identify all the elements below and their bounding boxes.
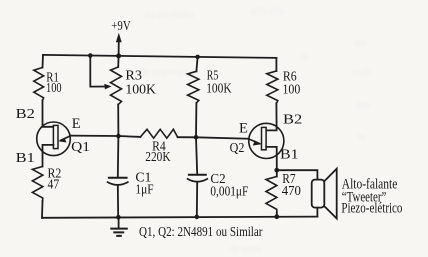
junction: +9V arrow / R3 top on rail	[116, 53, 121, 58]
ground	[118, 217, 120, 228]
wire R6 to Q2 B2	[266, 103, 276, 130]
svg-text:47: 47	[48, 177, 60, 192]
junction: wiper tap on +9V rail	[88, 53, 93, 58]
svg-text:100K: 100K	[125, 81, 156, 96]
junction: R5 top on rail	[195, 55, 200, 60]
wire R7 to bottom rail	[276, 212, 278, 216]
junction: R7 bottom on rail	[274, 214, 279, 219]
svg-text:B1: B1	[280, 148, 299, 163]
svg-text:onde: onde	[352, 67, 372, 78]
transistor Q1 (UJT) circle	[37, 122, 71, 156]
svg-text:E: E	[72, 116, 81, 132]
wire R1 to Q1 B2	[43, 101, 54, 127]
capacitor C1 top wire	[117, 136, 120, 178]
svg-text:B1: B1	[16, 151, 35, 166]
wire rail right corner to R6	[275, 58, 277, 71]
svg-text:de estes: de estes	[230, 244, 261, 255]
svg-text:de emprego: de emprego	[140, 67, 187, 78]
wire rail to R5	[196, 57, 197, 71]
resistor R7	[266, 177, 277, 213]
R3 wiper arrowhead	[104, 84, 111, 90]
capacitor C2 top wire	[196, 137, 197, 174]
svg-text:0,001μF: 0,001μF	[210, 183, 248, 198]
junction: ground / C1 on bottom rail	[116, 215, 121, 220]
junction: C2 bottom on rail	[195, 215, 200, 220]
svg-text:Q1, Q2: 2N4891 ou Similar: Q1, Q2: 2N4891 ou Similar	[139, 225, 263, 240]
transistor Q2 (UJT) circle	[249, 123, 284, 158]
capacitor C2 plates	[189, 174, 206, 176]
wire rail to R3 top	[117, 56, 119, 67]
svg-text:100: 100	[46, 80, 62, 95]
wire node to R7	[276, 170, 278, 176]
wire Q2 B1 lead down to node	[266, 147, 277, 170]
junction node: Q2 B1 / R7 / speaker	[274, 168, 279, 173]
junction node: Q2 emitter side / R5 / C2	[194, 135, 199, 140]
svg-text:100: 100	[283, 82, 301, 97]
resistor R2	[32, 167, 42, 202]
resistor R1	[34, 68, 44, 101]
resistor R4	[140, 129, 177, 138]
Q1 emitter arrowhead	[58, 138, 66, 143]
svg-text:E: E	[239, 120, 248, 136]
svg-text:oro: oro	[356, 100, 369, 111]
svg-text:Piezo-elétrico: Piezo-elétrico	[341, 201, 402, 217]
svg-text:to: to	[358, 132, 366, 143]
capacitor C1 bottom wire	[117, 185, 119, 217]
svg-text:Q2: Q2	[230, 141, 245, 156]
wire R2 to bottom rail corner	[41, 201, 44, 218]
svg-text:ow: ow	[355, 38, 368, 49]
resistor R6	[267, 71, 278, 103]
power arrow +9V head	[116, 33, 122, 42]
wire emitter line Q1 to Q2	[71, 136, 140, 137]
resistor R5	[188, 71, 199, 103]
wire R5 to emitter line	[195, 103, 197, 137]
wire top rail	[43, 55, 276, 58]
wire bottom rail	[42, 217, 317, 218]
wire Q1 B1 lead to R2	[43, 145, 54, 167]
speaker driver box	[312, 180, 325, 208]
capacitor C1 plates	[109, 177, 127, 179]
svg-text:aplicado: aplicado	[250, 6, 284, 17]
transistor Q2 emitter lead	[248, 139, 259, 144]
junction node: Q1 emitter / R3 / C1	[116, 134, 121, 139]
transistor Q1 emitter lead	[61, 136, 71, 141]
svg-text:+9V: +9V	[111, 19, 130, 34]
transistor Q1 base bar	[53, 125, 58, 148]
svg-text:os: os	[300, 52, 309, 63]
svg-text:no oscilador: no oscilador	[145, 10, 195, 21]
svg-text:B2: B2	[16, 107, 35, 122]
resistor R3 (rheostat)	[111, 67, 122, 105]
wire speaker bottom riser	[316, 208, 318, 217]
wire left column top (rail corner to R1)	[42, 55, 45, 68]
wire R3 wiper loop	[90, 56, 106, 87]
wire R4 to Q2 emitter	[178, 137, 249, 139]
svg-text:B2: B2	[283, 113, 302, 128]
wire +9V stub	[118, 38, 120, 56]
Q2 emitter arrowhead	[253, 140, 262, 145]
capacitor C2 bottom wire	[196, 182, 198, 217]
svg-text:1μF: 1μF	[135, 181, 153, 196]
speaker cone	[324, 169, 336, 219]
svg-text:Q1: Q1	[71, 140, 90, 155]
transistor Q2 base bar	[262, 127, 267, 149]
svg-text:100K: 100K	[206, 80, 232, 95]
faint bleedthrough smudges	[140, 6, 372, 255]
svg-text:220K: 220K	[145, 149, 171, 164]
wire node to speaker top	[277, 170, 318, 179]
svg-text:R3: R3	[125, 67, 142, 82]
svg-text:470: 470	[282, 183, 301, 198]
wire R3 bottom to emitter node	[117, 105, 119, 137]
